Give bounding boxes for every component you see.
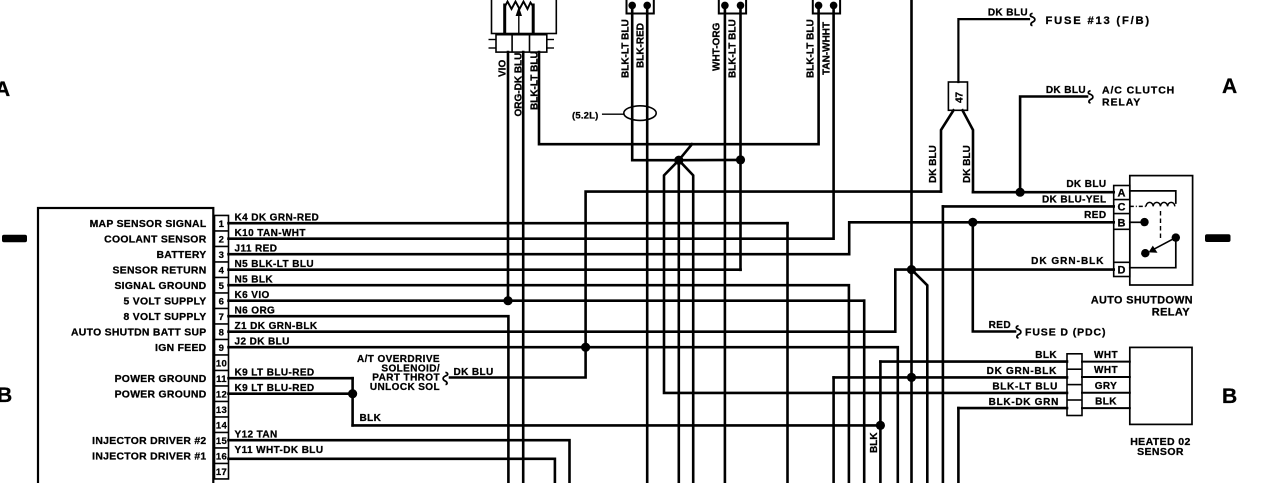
svg-text:RELAY: RELAY: [1102, 97, 1141, 109]
svg-text:AUTO SHUTDOWN: AUTO SHUTDOWN: [1091, 294, 1193, 306]
svg-text:DK GRN-BLK: DK GRN-BLK: [987, 366, 1057, 377]
svg-text:10: 10: [216, 358, 227, 369]
wire O2 pigtail BLK row4: [1082, 407, 1130, 409]
wire sensor return junction to C2: [679, 159, 741, 162]
svg-text:(5.2L): (5.2L): [572, 110, 599, 121]
svg-text:INJECTOR DRIVER #1: INJECTOR DRIVER #1: [92, 452, 206, 463]
svg-text:WHT-ORG: WHT-ORG: [712, 22, 723, 71]
wire DK BLU splice 47 right leg: [963, 110, 974, 192]
wire BLK-LT BLU C1 left drop: [632, 9, 679, 160]
relay common contact: [1172, 233, 1180, 241]
svg-text:RED: RED: [989, 320, 1011, 331]
relay arm arrowhead: [1149, 246, 1158, 253]
ASD relay pin strip: [1114, 186, 1130, 277]
svg-text:J11 RED: J11 RED: [235, 243, 278, 254]
svg-text:K6 VIO: K6 VIO: [235, 290, 270, 301]
svg-text:BLK: BLK: [1035, 350, 1057, 361]
wire ORG-DK BLU TPS signal drop: [522, 52, 525, 483]
wire DK BLU-YEL relay C: [943, 205, 1114, 208]
junction trunk / relay D / PCM pin 8: [907, 265, 916, 274]
wire pin 6 K6 VIO: [229, 299, 865, 302]
svg-text:K9 LT BLU-RED: K9 LT BLU-RED: [235, 383, 315, 394]
relay coil: [1146, 202, 1175, 206]
connector C2 sensor: [719, 0, 746, 14]
svg-text:N5 BLK-LT BLU: N5 BLK-LT BLU: [235, 259, 314, 270]
svg-text:SENSOR RETURN: SENSOR RETURN: [113, 266, 207, 277]
svg-text:9: 9: [219, 343, 225, 354]
relay pin B contact lead: [1130, 221, 1143, 223]
wire DK GRN-BLK branch diagonal: [912, 270, 928, 483]
wire sensor return tap to top run: [679, 144, 692, 160]
svg-text:BLK-DK GRN: BLK-DK GRN: [989, 397, 1059, 408]
svg-text:DK BLU: DK BLU: [454, 367, 494, 378]
wire pin 15 Y12 TAN: [229, 440, 570, 483]
wire pin 5 N5 BLK: [229, 285, 849, 483]
junction RED / fuse D feed: [968, 218, 977, 227]
wire pin 7 N6 ORG: [229, 316, 509, 483]
TPS sensor body box: [492, 0, 557, 34]
svg-text:AUTO SHUTDN BATT SUP: AUTO SHUTDN BATT SUP: [71, 328, 207, 339]
wire pin 1 drop to MAP sensor: [786, 223, 789, 483]
wire DK BLU splice 47 to FUSE #13: [958, 19, 1029, 82]
svg-text:B: B: [0, 384, 13, 407]
wire VIO TPS supply drop: [507, 52, 510, 301]
svg-text:8 VOLT SUPPLY: 8 VOLT SUPPLY: [123, 312, 206, 323]
svg-text:RELAY: RELAY: [1152, 306, 1191, 318]
svg-text:FUSE #13 (F/B): FUSE #13 (F/B): [1046, 15, 1151, 27]
svg-text:GRY: GRY: [1095, 381, 1118, 392]
junction IGN feed DK BLU: [581, 343, 590, 352]
svg-text:4: 4: [219, 265, 225, 276]
wire BLK-LT BLU TPS return: [539, 9, 819, 144]
svg-text:Y12 TAN: Y12 TAN: [235, 429, 278, 440]
wire O2 row2 drop: [832, 377, 835, 483]
wire pin 16 Y11 WHT-DK BLU: [229, 459, 555, 483]
svg-text:8: 8: [219, 327, 225, 338]
ASD relay box: [1130, 176, 1193, 285]
svg-text:K9 LT BLU-RED: K9 LT BLU-RED: [235, 367, 315, 378]
wire RED to FUSE D (PDC): [973, 222, 1015, 331]
svg-text:DK BLU: DK BLU: [928, 145, 939, 183]
junction sensor return center: [674, 156, 683, 165]
splice 47 box: [948, 82, 967, 110]
junction BLK ground / O2 heater return: [876, 421, 885, 430]
svg-text:BLK-LT BLU: BLK-LT BLU: [621, 19, 632, 78]
break symbol at FUSE #13: [1030, 13, 1035, 25]
TPS resistor right leg: [532, 5, 535, 34]
wire DK BLU ignition feed run: [450, 192, 941, 378]
svg-text:WHT: WHT: [1094, 365, 1118, 376]
svg-text:12: 12: [216, 389, 227, 400]
wire BLK ground run: [353, 424, 881, 427]
wire relay pin D DK GRN-BLK: [912, 268, 1114, 271]
svg-text:BLK: BLK: [1095, 396, 1117, 407]
svg-text:B: B: [1222, 385, 1238, 408]
relay coil lead from pin C (dash-dot): [1130, 205, 1146, 207]
svg-text:BLK: BLK: [360, 413, 382, 424]
wire BLK-LT BLU C2 right drop: [739, 9, 742, 270]
wire DK BLU splice 47 left leg: [941, 110, 954, 191]
svg-text:BLK-LT BLU: BLK-LT BLU: [728, 19, 739, 78]
wire DK BLU to A/C clutch relay: [1020, 97, 1087, 193]
connector C3 coolant temp sensor terminal 2: [830, 2, 838, 10]
wire DK BLU to relay pin A: [973, 191, 1114, 194]
svg-text:POWER GROUND: POWER GROUND: [115, 390, 207, 401]
connector C3 coolant temp sensor: [813, 0, 840, 14]
O2 connector strip: [1067, 354, 1082, 416]
svg-text:BLK-LT BLU: BLK-LT BLU: [992, 381, 1058, 392]
wire O2 pigtail WHT row1: [1082, 361, 1130, 363]
svg-text:15: 15: [216, 436, 228, 447]
svg-text:N5 BLK: N5 BLK: [235, 274, 274, 285]
wire pin 1 K4 DK GRN-RED: [229, 222, 788, 225]
svg-text:14: 14: [216, 420, 228, 431]
TPS connector cells: [496, 35, 547, 52]
wire O2 row2 DK GRN-BLK: [834, 376, 1067, 379]
svg-text:A: A: [1118, 187, 1126, 199]
svg-text:BLK-LT BLU: BLK-LT BLU: [806, 19, 817, 78]
svg-text:DK BLU-YEL: DK BLU-YEL: [1042, 195, 1107, 206]
svg-text:5: 5: [219, 281, 225, 292]
page tab marker right: [1205, 234, 1231, 242]
relay coil feed from pin A: [1130, 191, 1176, 203]
svg-text:IGN FEED: IGN FEED: [155, 343, 207, 354]
wire BLK-RED C1 right drop: [646, 9, 649, 483]
relay actuator dashed link: [1160, 211, 1162, 238]
wire O2 row4 BLK-DK GRN: [958, 407, 1067, 410]
svg-text:COOLANT SENSOR: COOLANT SENSOR: [104, 235, 207, 246]
svg-text:DK BLU: DK BLU: [962, 145, 973, 183]
wire pin 9 J2 DK BLU: [229, 347, 898, 483]
svg-text:K10 TAN-WHT: K10 TAN-WHT: [235, 228, 306, 239]
wire pin 11 jog down: [351, 378, 354, 425]
svg-text:WHT: WHT: [1094, 350, 1118, 361]
wire O2 pigtail WHT row2: [1082, 376, 1130, 378]
svg-text:Z1 DK GRN-BLK: Z1 DK GRN-BLK: [235, 321, 318, 332]
svg-text:A/C CLUTCH: A/C CLUTCH: [1102, 85, 1175, 97]
wire pin 6 drop: [863, 301, 866, 483]
TPS connector side ticks: [489, 40, 555, 49]
svg-text:2: 2: [219, 234, 225, 245]
svg-text:DK BLU: DK BLU: [1066, 179, 1106, 190]
svg-text:A: A: [1222, 75, 1238, 98]
wire pin 8 Z1 DK GRN-BLK: [229, 270, 912, 332]
svg-text:5 VOLT SUPPLY: 5 VOLT SUPPLY: [123, 297, 206, 308]
TPS resistor element zigzag: [505, 2, 534, 10]
TPS wiper arrow: [518, 13, 520, 34]
svg-text:47: 47: [955, 91, 966, 103]
svg-text:11: 11: [216, 374, 227, 385]
connector C1 (5.2L) injector-area terminal 1: [628, 2, 636, 10]
svg-text:INJECTOR DRIVER #2: INJECTOR DRIVER #2: [92, 436, 206, 447]
junction VIO / TPS supply: [503, 296, 512, 305]
svg-text:BATTERY: BATTERY: [156, 250, 206, 261]
wire O2 row1 BLK: [880, 360, 1067, 363]
svg-text:SENSOR: SENSOR: [1137, 446, 1184, 458]
wire pin 12 K9 LT BLU-RED: [229, 392, 353, 395]
svg-text:7: 7: [219, 312, 225, 323]
connector C2 sensor terminal 2: [737, 2, 745, 10]
heated O2 sensor box: [1130, 347, 1192, 424]
relay contact lower: [1141, 249, 1149, 257]
relay contact B: [1140, 218, 1148, 226]
PCM connector box: [38, 208, 213, 483]
svg-text:TAN-WHHT: TAN-WHHT: [822, 22, 833, 75]
connector C3 coolant temp sensor terminal 1: [815, 2, 823, 10]
(5.2L) leader line: [603, 113, 624, 115]
svg-text:13: 13: [216, 405, 227, 416]
wire O2 row4 drop: [957, 408, 960, 483]
svg-text:C: C: [1118, 202, 1126, 214]
svg-text:Y11 WHT-DK BLU: Y11 WHT-DK BLU: [235, 445, 324, 456]
junction trunk / O2 heater row: [907, 373, 916, 382]
svg-text:UNLOCK SOL: UNLOCK SOL: [370, 382, 440, 393]
TPS resistor left leg: [503, 5, 506, 34]
break symbol at A/C clutch relay: [1088, 91, 1093, 103]
relay switch arm: [1152, 238, 1176, 251]
break symbol at A/T overdrive solenoid: [443, 372, 448, 384]
wire sensor return branch S: [677, 160, 680, 483]
svg-text:D: D: [1118, 265, 1126, 277]
wire WHT-ORG C2 left drop: [724, 9, 727, 483]
svg-text:SIGNAL GROUND: SIGNAL GROUND: [114, 281, 206, 292]
connector C1 (5.2L) injector-area terminal 2: [643, 2, 651, 10]
svg-text:17: 17: [216, 467, 227, 478]
wire sensor return branch SW: [664, 160, 1067, 393]
junction sensor return at C2: [736, 155, 745, 164]
svg-text:B: B: [1118, 217, 1126, 229]
svg-text:FUSE D (PDC): FUSE D (PDC): [1025, 327, 1106, 339]
svg-text:K4 DK GRN-RED: K4 DK GRN-RED: [235, 212, 320, 223]
svg-text:6: 6: [219, 296, 225, 307]
wire DK GRN-BLK trunk from top: [910, 0, 913, 483]
junction DK BLU / A-C clutch feed: [1016, 188, 1025, 197]
break symbol at FUSE D: [1016, 326, 1021, 338]
svg-text:16: 16: [216, 451, 227, 462]
relay common to pin D: [1130, 238, 1176, 268]
svg-text:1: 1: [219, 219, 225, 230]
wire DK BLU-YEL drop: [942, 206, 945, 483]
svg-text:POWER GROUND: POWER GROUND: [115, 374, 207, 385]
(5.2L) engine callout ellipse: [624, 106, 656, 121]
svg-text:DK BLU: DK BLU: [988, 8, 1028, 19]
svg-text:J2 DK BLU: J2 DK BLU: [235, 336, 290, 347]
svg-text:A: A: [0, 78, 11, 101]
connector C1 (5.2L) injector-area: [627, 0, 654, 14]
svg-text:BLK: BLK: [869, 432, 880, 453]
svg-text:3: 3: [219, 250, 225, 261]
PCM pin strip C1 pins 1-17: [215, 215, 229, 479]
svg-text:DK GRN-BLK: DK GRN-BLK: [1031, 256, 1104, 267]
page tab marker left: [2, 235, 27, 242]
wire BLK to O2 row 1: [879, 362, 882, 483]
wire O2 pigtail GRY row3: [1082, 392, 1130, 394]
svg-text:MAP SENSOR SIGNAL: MAP SENSOR SIGNAL: [90, 219, 207, 230]
svg-text:DK BLU: DK BLU: [1046, 85, 1086, 96]
svg-text:BLK-RED: BLK-RED: [636, 23, 647, 68]
wire pin 2 K10 TAN-WHT to C3: [229, 9, 834, 239]
wire pin 11 K9 LT BLU-RED: [229, 377, 353, 380]
svg-text:N6 ORG: N6 ORG: [235, 305, 276, 316]
wire pin 3 J11 RED: [229, 222, 1114, 254]
wire sensor return branch SE: [679, 160, 693, 483]
connector C2 sensor terminal 1: [721, 2, 729, 10]
junction power ground pins 11-12: [348, 389, 357, 398]
svg-text:RED: RED: [1084, 210, 1106, 221]
wire pin 4 N5 BLK-LT BLU: [229, 268, 741, 271]
